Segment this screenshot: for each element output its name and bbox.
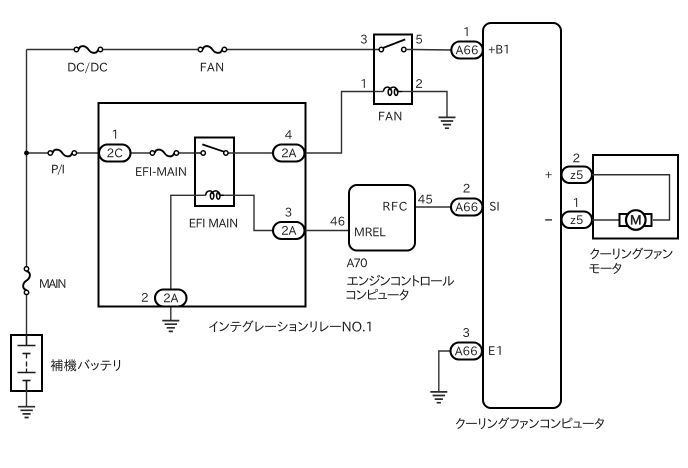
pin number 2 of 2A [142,293,148,302]
junction node at battery feed / P-I row [24,151,29,156]
wire EFI-MAIN fuse to EFI MAIN relay [179,152,202,154]
connector oval 2A pin 2 on relay [155,290,187,307]
FAN relay coil [383,87,402,95]
wire relay pin 2 to ground [170,307,172,321]
wire top rail segment from FAN fuse to FAN relay pin 3 [227,49,380,51]
FAN relay box [374,35,412,105]
label "クーリングファン" [590,248,672,260]
polarity "−" at z5 pin 1 [545,219,552,221]
terminal name "SI" [490,202,499,211]
label relay "EFI MAIN" [190,219,237,228]
wire z5 pin 2 to motor (+) side [592,175,670,220]
pin number 1 of FAN relay [362,79,365,88]
text "2A" in connector oval [164,293,178,302]
ground below integration relay pin 2 [162,321,179,332]
label "A70" [347,258,367,267]
text "A66" in connector oval [455,346,477,355]
EFI MAIN relay coil [206,191,225,199]
contact left of FAN relay switch (pin 3) [379,47,383,51]
fuse EFI-MAIN [150,150,178,157]
connector oval z5 pin 1 (−) [562,212,593,229]
EFI MAIN relay switch blade [202,144,224,151]
pin number 3 of 2A [285,208,291,217]
wire engine control computer RFC pin 45 to A66 pin 2 [415,206,451,208]
pin number 2 of A66 SI [464,184,470,193]
pin number 1 of A66 +B1 [464,27,467,36]
terminal name "E1" [489,346,501,355]
auxiliary battery box [11,335,42,391]
pin number 45 [418,195,432,204]
wire EFI MAIN coil to relay pin 3 [234,195,273,230]
fusible link MAIN [23,267,30,295]
motor left brush terminal [620,214,632,226]
engine control computer A70 box [349,185,415,251]
ground below FAN relay pin 2 [439,117,456,128]
contact left of EFI MAIN relay switch [201,151,205,155]
pin number 3 of A66 E1 [463,328,469,337]
connector oval z5 pin 2 (+) [562,167,593,184]
wire relay pin 4 up to FAN relay coil [305,92,375,154]
pin number 1 of z5 [574,198,577,207]
label "クーリングファンコンピュータ" [456,417,604,429]
label "コンピュータ" [347,289,409,301]
connector oval A66 pin 3 (E1) [451,343,483,360]
text "A66" in connector oval [456,45,478,54]
wire P/I row from junction to fuse [27,152,49,154]
label "補機バッテリ" [51,359,120,371]
label relay "FAN" [379,112,401,121]
pin number 5 of FAN relay [416,35,422,44]
label "インテグレーションリレーNO.1" [209,320,371,332]
pin number 46 [330,217,344,226]
terminal name "MREL" [355,228,385,237]
wire top rail segment from corner to DC/DC fuse [27,49,75,51]
fuse P/I [48,150,76,157]
pin number 3 of FAN relay [361,35,367,44]
wire FAN relay pin 5 to A66 pin 1 [406,49,451,52]
wire relay pin 3 to engine control computer pin 46 [305,230,350,232]
label fuse "FAN" [201,63,223,72]
EFI MAIN relay box [195,138,234,207]
contact right of EFI MAIN relay switch [224,151,228,155]
wire battery negative to ground [26,391,28,407]
label "エンジンコントロール" [347,275,454,287]
wire top rail segment between DC/DC and FAN fuses [103,49,199,51]
text "z5" in connector oval [571,170,583,179]
wire z5 pin 1 to motor (−) side [592,219,620,221]
cooling fan motor box [593,155,678,239]
wire P/I fuse to connector 2C [76,152,99,154]
integration relay NO.1 outline box [99,103,306,307]
wire 2C to EFI-MAIN fuse [130,152,150,154]
wire EFI MAIN coil to relay pin 2 [171,195,195,289]
connector oval A66 pin 1 (+B1) [451,42,483,59]
text "2A" in connector oval [282,148,296,157]
text "A66" in connector oval [455,202,477,211]
fuse FAN [198,46,226,53]
wire FAN relay coil left lead [374,91,383,93]
motor letter "M" [631,215,640,224]
text "z5" in connector oval [571,215,583,224]
label fuse "P/I" [52,164,64,175]
label fuse "EFI-MAIN" [136,167,186,176]
FAN relay switch blade [383,39,405,48]
terminal name "RFC" [384,202,407,211]
wire into EFI MAIN relay switch [195,152,201,154]
cooling fan computer box [483,23,561,408]
pin number 2 of FAN relay [416,79,422,88]
connector oval 2C pin 1 on relay [99,145,131,162]
label fuse "DC/DC" [68,62,107,73]
connector oval A66 pin 2 (SI) [451,199,483,216]
fuse DC/DC [74,46,102,53]
text "2A" in connector oval [282,226,296,235]
terminal name "+B1" [489,45,508,54]
contact right of FAN relay switch (pin 5) [402,47,406,51]
wire battery feed: left vertical from top rail to MAIN fuse [26,50,28,267]
wire EFI MAIN coil right lead [224,194,234,196]
label fusible link "MAIN" [40,279,65,288]
motor right brush terminal [641,214,652,226]
polarity "+" at z5 pin 2 [546,172,552,179]
connector oval 2A pin 3 on relay [273,222,305,239]
wire EFI MAIN switch to connector 2A pin 4 [228,152,273,154]
wire from MAIN fuse to battery [26,295,28,335]
pin number 1 of 2C [113,130,116,139]
connector oval 2A pin 4 on relay [273,145,305,162]
ground below battery [18,407,35,418]
ground below E1 [430,392,447,403]
pin number 2 of z5 [573,154,579,163]
pin number 4 of 2A [285,130,292,139]
text "2C" in connector oval [107,148,122,157]
wire EFI MAIN coil left lead [195,194,206,196]
wire FAN relay pin 2 to ground [412,92,447,118]
battery internal plates [18,335,36,391]
wire A66 pin 3 (E1) to ground [439,351,451,392]
label "モータ" [589,263,621,274]
wire FAN relay coil right lead [402,91,412,93]
motor M circle [626,210,646,230]
